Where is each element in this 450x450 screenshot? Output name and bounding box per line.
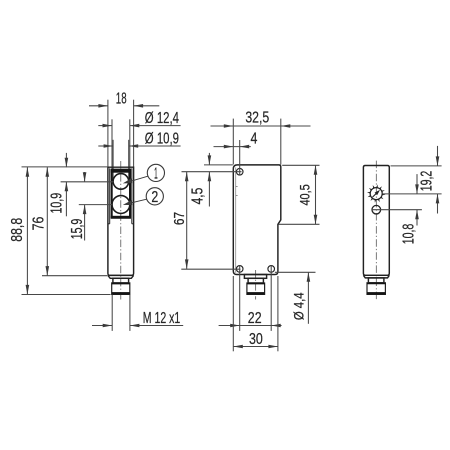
svg-text:M 12 x1: M 12 x1 bbox=[143, 310, 181, 327]
svg-text:88,8: 88,8 bbox=[9, 218, 26, 242]
svg-text:10,8: 10,8 bbox=[401, 224, 418, 245]
svg-text:2: 2 bbox=[151, 189, 158, 206]
svg-text:Ø 12,4: Ø 12,4 bbox=[145, 110, 179, 127]
svg-text:67: 67 bbox=[172, 212, 188, 225]
svg-text:4: 4 bbox=[251, 131, 258, 148]
svg-text:Ø 10,9: Ø 10,9 bbox=[145, 131, 179, 148]
svg-text:10,9: 10,9 bbox=[49, 193, 66, 214]
svg-text:40,5: 40,5 bbox=[298, 184, 313, 206]
svg-text:22: 22 bbox=[248, 310, 262, 327]
svg-text:30: 30 bbox=[249, 331, 263, 348]
svg-text:19,2: 19,2 bbox=[418, 171, 435, 192]
svg-text:76: 76 bbox=[30, 217, 47, 231]
svg-text:Ø 4,4: Ø 4,4 bbox=[291, 292, 307, 320]
svg-text:32,5: 32,5 bbox=[245, 110, 269, 127]
svg-text:4,5: 4,5 bbox=[189, 188, 206, 205]
svg-text:1: 1 bbox=[154, 165, 158, 182]
svg-text:15,9: 15,9 bbox=[69, 219, 86, 240]
svg-text:18: 18 bbox=[116, 90, 127, 107]
